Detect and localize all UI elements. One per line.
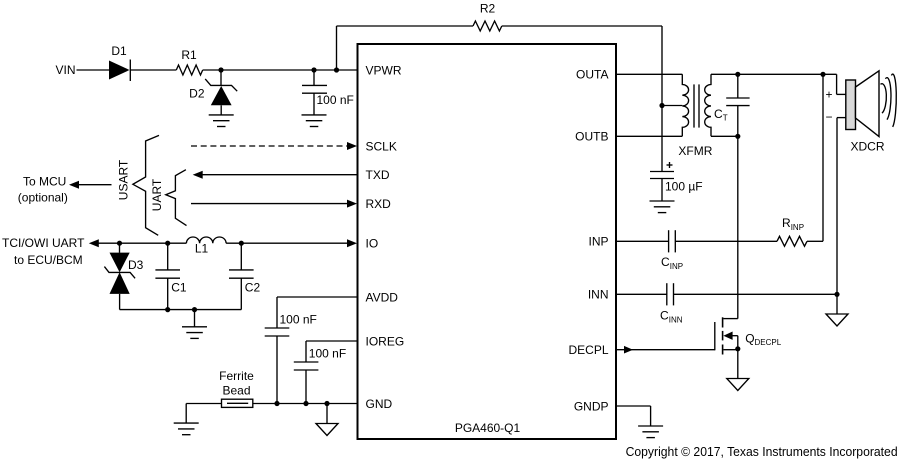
svg-text:INN: INN xyxy=(588,288,609,302)
svg-text:D3: D3 xyxy=(128,258,144,272)
svg-text:DECPL: DECPL xyxy=(568,343,608,357)
svg-text:Ferrite: Ferrite xyxy=(219,369,254,383)
svg-text:VIN: VIN xyxy=(55,63,75,77)
svg-text:Copyright © 2017, Texas Instru: Copyright © 2017, Texas Instruments Inco… xyxy=(626,444,898,459)
svg-text:(optional): (optional) xyxy=(18,191,68,205)
svg-text:PGA460-Q1: PGA460-Q1 xyxy=(455,421,521,435)
svg-text:TCI/OWI UART: TCI/OWI UART xyxy=(2,236,85,250)
svg-text:INN: INN xyxy=(669,315,683,324)
svg-text:C: C xyxy=(660,309,669,323)
svg-text:OUTB: OUTB xyxy=(575,130,608,144)
svg-text:XDCR: XDCR xyxy=(850,140,884,154)
svg-text:TXD: TXD xyxy=(366,168,390,182)
svg-text:VPWR: VPWR xyxy=(366,63,402,77)
svg-text:IO: IO xyxy=(366,237,379,251)
svg-text:To MCU: To MCU xyxy=(23,174,66,188)
svg-text:GNDP: GNDP xyxy=(574,399,609,413)
svg-text:IOREG: IOREG xyxy=(366,334,405,348)
svg-text:100 nF: 100 nF xyxy=(309,346,346,360)
svg-text:SCLK: SCLK xyxy=(366,139,397,153)
svg-text:DECPL: DECPL xyxy=(755,338,782,347)
svg-text:RXD: RXD xyxy=(366,197,392,211)
svg-text:100 nF: 100 nF xyxy=(317,93,354,107)
svg-text:R: R xyxy=(782,216,791,230)
svg-text:D2: D2 xyxy=(189,86,205,100)
svg-text:C: C xyxy=(714,107,723,121)
svg-text:C2: C2 xyxy=(245,281,261,295)
svg-text:−: − xyxy=(825,110,832,124)
svg-text:100 µF: 100 µF xyxy=(665,180,703,194)
svg-text:INP: INP xyxy=(588,235,608,249)
svg-text:XFMR: XFMR xyxy=(678,144,712,158)
svg-text:R1: R1 xyxy=(181,48,197,62)
svg-text:T: T xyxy=(723,114,728,123)
svg-text:D1: D1 xyxy=(111,44,127,58)
svg-text:Bead: Bead xyxy=(222,383,250,397)
svg-text:+: + xyxy=(825,87,832,101)
svg-text:GND: GND xyxy=(366,397,393,411)
svg-text:USART: USART xyxy=(117,159,131,200)
svg-text:to ECU/BCM: to ECU/BCM xyxy=(14,253,83,267)
svg-text:Q: Q xyxy=(745,332,754,346)
svg-text:R2: R2 xyxy=(480,2,496,16)
svg-text:UART: UART xyxy=(150,178,164,211)
svg-text:C1: C1 xyxy=(171,281,187,295)
svg-text:100 nF: 100 nF xyxy=(280,312,317,326)
svg-text:L1: L1 xyxy=(195,241,209,255)
svg-text:C: C xyxy=(661,255,670,269)
svg-text:AVDD: AVDD xyxy=(366,290,399,304)
svg-text:INP: INP xyxy=(670,262,683,271)
svg-text:INP: INP xyxy=(791,223,804,232)
svg-text:OUTA: OUTA xyxy=(576,68,608,82)
